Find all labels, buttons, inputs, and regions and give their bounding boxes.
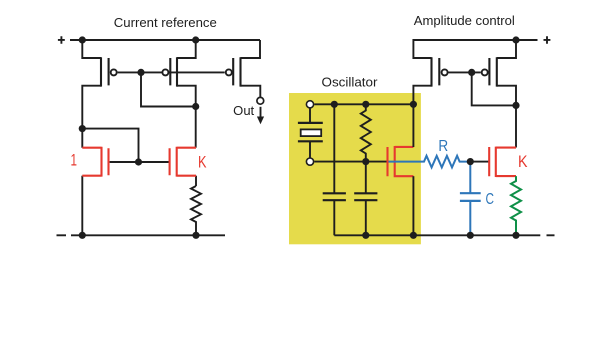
svg-text:K: K: [198, 152, 207, 171]
crystal X1: [298, 108, 323, 159]
transistor M8 (oscillator NMOS): [388, 146, 414, 177]
junction NMOS gate node left: [135, 158, 142, 165]
plus terminal right: [544, 36, 551, 44]
svg-text:Oscillator: Oscillator: [322, 75, 379, 90]
wire M3 source: [241, 40, 261, 58]
junction oscillator supply node: [410, 101, 417, 108]
wire M2 drain: [177, 86, 196, 107]
junction oscillator rail at R2: [362, 101, 369, 108]
crystal terminal top: [306, 101, 313, 108]
wire M5 drain to M9: [497, 86, 516, 148]
title Current reference: [114, 15, 217, 30]
svg-text:Out: Out: [233, 104, 255, 118]
junction M5 drain node: [512, 102, 519, 109]
label K right: [518, 152, 528, 171]
junction ground rail at C: [467, 232, 474, 239]
wire bottom rail right: [334, 234, 540, 236]
svg-text:1: 1: [70, 150, 77, 169]
wire M1 source: [82, 40, 101, 58]
junction oscillator rail at C1: [331, 101, 338, 108]
transistor M5 (PMOS): [482, 57, 497, 86]
minus terminal right: [547, 234, 555, 236]
wire gate lead M9: [474, 161, 490, 163]
junction gate bus left: [137, 69, 144, 76]
Out arrow: [257, 107, 264, 125]
wire gate bus right: [448, 71, 480, 73]
transistor M6 (NMOS 1): [82, 147, 108, 177]
junction top rail right at M5: [512, 36, 519, 43]
svg-text:K: K: [518, 152, 528, 171]
label 1: [70, 150, 77, 169]
wire top rail left: [70, 39, 260, 41]
wire diode connection M5: [472, 72, 516, 105]
title Amplitude control: [414, 13, 515, 28]
resistor R1: [191, 186, 201, 235]
junction node A gate bias tap: [79, 125, 86, 132]
junction top rail at M1 source: [79, 36, 86, 43]
junction oscillator gate node: [362, 158, 369, 165]
junction RC filter node B: [467, 158, 474, 165]
wire oscillator gate node: [314, 161, 386, 163]
capacitor C1: [323, 104, 346, 235]
crystal terminal bottom: [306, 158, 313, 165]
wire gate lead M6 M7: [110, 161, 170, 163]
transistor M1 (PMOS): [101, 57, 117, 86]
svg-text:C: C: [486, 191, 495, 208]
Out terminal circle: [257, 97, 264, 104]
junction M2 drain node: [192, 103, 199, 110]
wire gate bias left: [82, 129, 138, 162]
junction ground rail left at R1: [192, 232, 199, 239]
wire M6 source to ground: [81, 176, 83, 236]
junction ground rail at C2: [362, 232, 369, 239]
resistor R3 green: [511, 176, 521, 235]
wire M2 drain to M7 drain: [195, 107, 197, 148]
label C: [486, 191, 495, 208]
transistor M7 (NMOS K): [170, 147, 196, 177]
junction ground rail left at M6: [79, 232, 86, 239]
capacitor C blue: [460, 162, 481, 236]
wire M4 drain: [413, 86, 431, 105]
svg-text:Amplitude control: Amplitude control: [414, 13, 515, 28]
transistor M2 (PMOS): [162, 57, 177, 86]
wire M2 source: [177, 40, 196, 58]
junction gate bus right: [468, 69, 475, 76]
wire M8 drain: [412, 104, 414, 147]
transistor M3 (PMOS): [226, 57, 241, 86]
wire oscillator top rail: [314, 103, 413, 105]
wire top rail right: [413, 40, 537, 58]
junction top rail at M2 source: [192, 36, 199, 43]
wire M7 source to resistor: [195, 176, 197, 186]
title Oscillator: [322, 75, 379, 90]
yellow oscillator highlight: [289, 93, 421, 244]
minus terminal left: [57, 234, 67, 236]
junction ground rail at R3: [512, 232, 519, 239]
wire gate bus left: [118, 71, 225, 73]
label R: [438, 138, 448, 155]
wire M1 drain to node A: [82, 86, 101, 148]
wire M8 source: [412, 176, 414, 235]
resistor R2 oscillator bias: [361, 104, 371, 161]
svg-text:R: R: [438, 138, 448, 155]
transistor M4 (PMOS): [432, 57, 448, 86]
plus terminal left: [58, 36, 65, 44]
label K left: [198, 152, 207, 171]
wire M3 drain to Out: [241, 86, 261, 98]
wire bottom rail left: [71, 234, 225, 236]
transistor M9 (NMOS K amplitude): [489, 147, 516, 177]
wire M5 source: [497, 40, 516, 58]
junction ground rail at M8: [410, 232, 417, 239]
capacitor C2: [354, 162, 377, 236]
wire diode connection M2: [141, 72, 196, 106]
Out label: [233, 104, 255, 118]
svg-text:Current reference: Current reference: [114, 15, 217, 30]
resistor R blue: [389, 156, 468, 168]
